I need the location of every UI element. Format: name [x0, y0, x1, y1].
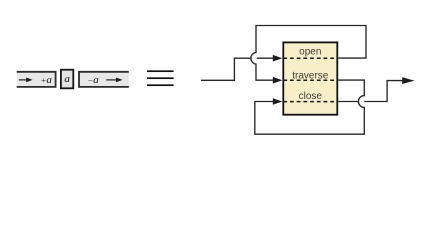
tape segment right: [78, 71, 129, 88]
equivalence symbol: [147, 70, 174, 86]
svg-text:−a: −a: [87, 74, 99, 86]
arrowhead output: [402, 77, 414, 84]
wire traverse-output loop with hop: [255, 80, 364, 134]
arrow in tape left: [19, 78, 33, 83]
box a: [61, 70, 73, 89]
svg-text:close: close: [299, 91, 323, 102]
tape segment left: [17, 71, 57, 88]
svg-text:+a: +a: [41, 74, 53, 86]
arrowhead into traverse: [273, 77, 283, 84]
dashed line close: [283, 101, 337, 103]
expanded box: [283, 42, 337, 114]
wire input: [201, 58, 274, 80]
dashed line open: [283, 57, 337, 59]
arrow in tape right: [106, 78, 122, 83]
arrowhead into open: [273, 55, 283, 62]
arrowhead into close: [273, 98, 283, 105]
svg-text:traverse: traverse: [292, 70, 329, 81]
wire open-output loop with hop: [251, 26, 366, 81]
dashed line traverse: [283, 79, 337, 81]
wire close-output to exit: [338, 81, 402, 102]
svg-text:open: open: [299, 46, 321, 57]
svg-text:a: a: [64, 73, 70, 85]
